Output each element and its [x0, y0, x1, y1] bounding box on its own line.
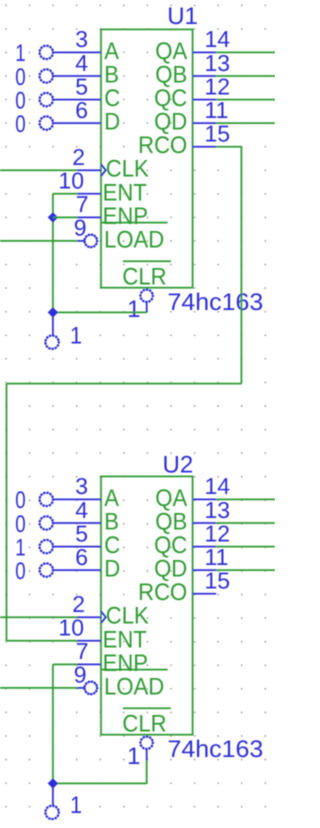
pin stub U2 ENT pin 10 [78, 640, 102, 642]
overline above CLR label of U1 [123, 260, 171, 262]
svg-text:4: 4 [75, 497, 88, 523]
wire riser x=53 from ENT down to CLR tie [52, 194, 54, 313]
terminal circle logic 1 (U2 enable tie) [45, 806, 58, 819]
svg-text:10: 10 [58, 615, 84, 641]
input terminal circle U2 B [40, 516, 53, 529]
wire below U2 CLR pin down to tie row [146, 760, 148, 783]
pin stub U1 LOAD pin 9 [78, 240, 85, 242]
clock wedge at U1 CLK input [101, 164, 106, 176]
pin stub U1 CLK pin 2 [78, 169, 102, 171]
pin stub U1 QC pin 12 [193, 99, 217, 101]
inversion bubble U1 CLR pin 1 [140, 290, 152, 302]
svg-text:1: 1 [70, 792, 82, 819]
svg-text:D: D [104, 109, 120, 136]
wire junction down to logic-1 terminal [52, 312, 54, 336]
svg-text:D: D [104, 556, 120, 583]
inversion bubble U1 LOAD pin 9 [85, 235, 98, 248]
input terminal circle U2 D [40, 563, 53, 576]
wire terminal to U2 pin D [53, 569, 101, 571]
wire U1 QC output to right edge [216, 99, 275, 101]
wire RCO vertical drop right side [240, 147, 242, 384]
svg-text:5: 5 [75, 520, 88, 546]
pin stub U2 LOAD pin 9 [78, 687, 85, 689]
wire U2 QA output to right edge [216, 498, 275, 500]
grid dots background [5, 5, 266, 806]
junction at U1 ENP row [48, 212, 58, 222]
input terminal circle U1 C [40, 93, 53, 106]
wire U1 QA output to right edge [216, 51, 275, 53]
pin stub U1 ENP pin 7 [78, 216, 102, 218]
svg-text:1: 1 [70, 323, 82, 350]
svg-text:14: 14 [205, 26, 231, 52]
wire U2 QC output to right edge [216, 546, 275, 548]
wire RCO vertical down left side to U2 ENT [6, 384, 8, 641]
wire U1 RCO to corner [216, 146, 241, 148]
svg-text:6: 6 [75, 97, 88, 123]
wire carry into U2 ENT [7, 640, 78, 642]
wire riser x=53 from U2 ENP down to CLR tie [52, 664, 54, 783]
svg-text:74hc163: 74hc163 [168, 736, 264, 763]
wire terminal to U2 pin C [53, 546, 101, 548]
pin stub U2 ENP pin 7 [78, 663, 102, 665]
pin stub U1 QD pin 11 [193, 122, 217, 124]
wire U1 QD output to right edge [216, 122, 275, 124]
wire terminal to U1 pin D [53, 122, 101, 124]
wire terminal to U1 pin A [53, 51, 101, 53]
wire U1 QB output to right edge [216, 75, 275, 77]
inversion bubble U2 CLR pin 1 [140, 737, 152, 749]
pin stub U2 QD pin 11 [193, 569, 217, 571]
overline above LOAD label of U2 [101, 669, 168, 671]
svg-text:7: 7 [76, 638, 89, 664]
svg-text:LOAD: LOAD [104, 226, 164, 253]
svg-text:14: 14 [205, 473, 231, 499]
svg-text:U1: U1 [167, 3, 198, 30]
svg-text:0: 0 [15, 111, 25, 138]
svg-text:9: 9 [74, 215, 87, 241]
wire junction to U1 ENP stub [53, 216, 78, 218]
wire U2 QD output to right edge [216, 569, 275, 571]
svg-text:10: 10 [58, 168, 84, 194]
svg-text:11: 11 [205, 544, 229, 570]
wire terminal to U2 pin A [53, 498, 101, 500]
wire U1 CLR tie horizontal [53, 311, 147, 313]
input terminal circle U1 D [40, 116, 53, 129]
svg-text:12: 12 [205, 73, 231, 99]
svg-text:74hc163: 74hc163 [168, 289, 264, 316]
wire U2 CLK from left edge [0, 616, 78, 618]
pin stub U2 QB pin 13 [193, 522, 217, 524]
wire U2 CLR tie horizontal [53, 782, 147, 784]
svg-text:3: 3 [75, 473, 88, 499]
svg-text:CLR: CLR [122, 711, 166, 738]
wire U1 ENT horizontal to riser [53, 193, 78, 195]
wire U1 CLK from left edge [0, 169, 78, 171]
input terminal circle U1 A [40, 46, 53, 59]
pin drop below U1 CLR bubble [146, 302, 148, 313]
pin stub U2 CLK pin 2 [78, 616, 102, 618]
wire terminal to U1 pin B [53, 75, 101, 77]
overline above LOAD label of U1 [101, 222, 168, 224]
svg-text:2: 2 [72, 144, 85, 170]
svg-text:3: 3 [75, 26, 88, 52]
wire junction down to logic-1 terminal [52, 783, 54, 806]
svg-text:1: 1 [127, 743, 140, 770]
op-chip U1 74hc163 body [101, 29, 193, 287]
pin stub U1 RCO pin 15 [193, 146, 217, 148]
op-chip U2 74hc163 body [101, 476, 193, 734]
pin stub U2 QA pin 14 [193, 498, 217, 500]
clock wedge at U2 CLK input [101, 611, 106, 623]
svg-text:15: 15 [205, 568, 231, 594]
svg-text:12: 12 [205, 520, 231, 546]
pin stub U1 QA pin 14 [193, 51, 217, 53]
svg-text:15: 15 [205, 121, 231, 147]
svg-text:11: 11 [205, 97, 229, 123]
svg-text:13: 13 [205, 497, 231, 523]
pin stub U2 RCO pin 15 [193, 593, 217, 595]
svg-text:5: 5 [75, 73, 88, 99]
input terminal circle U2 C [40, 540, 53, 553]
junction at U1 tie node [48, 307, 58, 317]
svg-text:2: 2 [72, 591, 85, 617]
wire U2 QB output to right edge [216, 522, 275, 524]
svg-text:7: 7 [76, 191, 89, 217]
terminal circle logic 1 (U1 enable tie) [45, 336, 58, 349]
overline above CLR label of U2 [123, 707, 171, 709]
svg-text:1: 1 [127, 296, 140, 323]
svg-text:13: 13 [205, 50, 231, 76]
wire U1 LOAD from left edge [0, 240, 78, 242]
pin stub U2 QC pin 12 [193, 546, 217, 548]
inversion bubble U2 LOAD pin 9 [85, 682, 98, 695]
wire RCO horizontal across page [7, 383, 242, 385]
wire U2 LOAD from left edge [0, 687, 78, 689]
svg-text:0: 0 [15, 558, 25, 585]
input terminal circle U2 A [40, 493, 53, 506]
svg-text:6: 6 [75, 544, 88, 570]
pin stub U1 ENT pin 10 [78, 193, 102, 195]
svg-text:9: 9 [74, 662, 87, 688]
svg-text:CLR: CLR [122, 264, 166, 291]
svg-text:LOAD: LOAD [104, 673, 164, 700]
wire terminal to U1 pin C [53, 99, 101, 101]
wire U2 ENP horizontal to riser [53, 663, 78, 665]
input terminal circle U1 B [40, 69, 53, 82]
svg-text:4: 4 [75, 50, 88, 76]
svg-text:U2: U2 [163, 451, 194, 478]
junction at U2 tie node [48, 778, 58, 788]
pin drop below U2 CLR bubble [146, 749, 148, 761]
wire terminal to U2 pin B [53, 522, 101, 524]
pin stub U1 QB pin 13 [193, 75, 217, 77]
